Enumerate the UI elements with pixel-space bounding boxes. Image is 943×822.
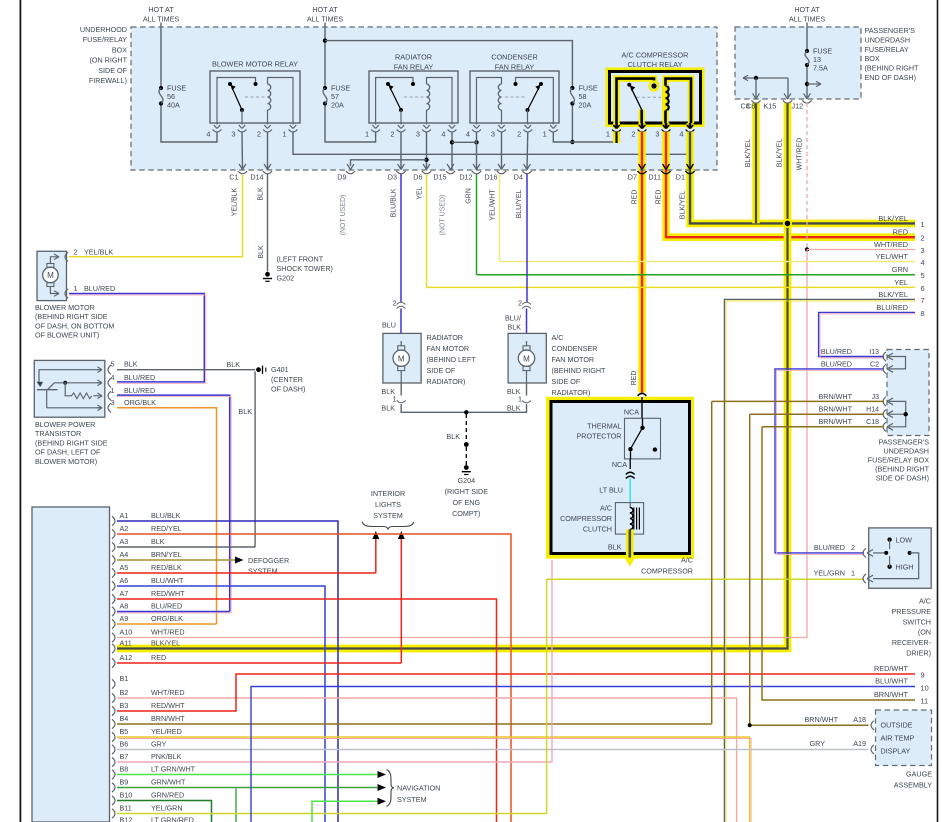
svg-text:1: 1 [74,284,78,293]
svg-text:BRN/WHT: BRN/WHT [818,392,852,401]
svg-text:BLK: BLK [608,543,622,552]
svg-text:ALL TIMES: ALL TIMES [307,15,344,24]
svg-text:GAUGE: GAUGE [906,770,932,779]
svg-text:DISPLAY: DISPLAY [881,747,911,756]
svg-text:BLU/: BLU/ [505,314,521,323]
svg-text:D9: D9 [337,173,346,182]
svg-text:RADIATOR: RADIATOR [395,53,432,62]
svg-text:RED: RED [151,653,166,662]
svg-text:BLK: BLK [226,360,240,369]
svg-text:BRN/WHT: BRN/WHT [818,417,852,426]
svg-text:2: 2 [517,130,521,139]
svg-text:J12: J12 [792,102,804,111]
svg-text:BLOWER MOTOR): BLOWER MOTOR) [35,457,97,466]
svg-text:C1: C1 [229,173,238,182]
svg-text:ALL TIMES: ALL TIMES [789,15,826,24]
svg-text:BLK: BLK [507,404,521,413]
svg-text:A9: A9 [120,614,129,623]
svg-text:1: 1 [921,220,925,229]
svg-text:BLK: BLK [258,187,265,201]
svg-text:C18: C18 [866,419,879,426]
svg-text:D4: D4 [514,173,523,182]
svg-text:LIGHTS: LIGHTS [375,500,401,509]
svg-text:SYSTEM: SYSTEM [397,795,427,804]
svg-text:HIGH: HIGH [896,563,914,572]
svg-text:UNDERHOOD: UNDERHOOD [80,25,127,34]
svg-text:5: 5 [111,360,115,369]
svg-text:LT GRN/RED: LT GRN/RED [151,816,194,822]
svg-text:YEL: YEL [417,186,424,199]
svg-text:SIDE OF: SIDE OF [552,377,581,386]
svg-text:RED: RED [656,190,663,205]
svg-text:CLUTCH RELAY: CLUTCH RELAY [627,60,682,69]
svg-text:4: 4 [679,130,683,139]
svg-text:BLK: BLK [507,323,521,332]
svg-text:RED: RED [893,228,908,237]
svg-text:BLU/RED: BLU/RED [84,284,115,293]
svg-text:G202: G202 [277,274,295,283]
svg-text:2: 2 [393,299,397,308]
svg-text:AIR TEMP: AIR TEMP [881,734,915,743]
svg-text:RED/BLK: RED/BLK [151,563,182,572]
svg-text:WHT/RED: WHT/RED [874,240,908,249]
svg-text:6: 6 [921,284,925,293]
svg-text:(ON: (ON [918,628,931,637]
svg-text:SHOCK TOWER): SHOCK TOWER) [277,264,333,273]
svg-text:RED/YEL: RED/YEL [151,524,182,533]
svg-text:RADIATOR): RADIATOR) [552,388,591,397]
svg-text:BLK/YEL: BLK/YEL [745,139,752,168]
svg-text:RED/WHT: RED/WHT [151,701,185,710]
svg-text:B12: B12 [120,816,133,822]
svg-text:D11: D11 [648,173,661,182]
svg-text:D1: D1 [676,173,685,182]
svg-text:BLU/WHT: BLU/WHT [875,677,908,686]
svg-text:RED: RED [631,371,638,386]
svg-text:NAVIGATION: NAVIGATION [397,784,440,793]
svg-text:CONDENSER: CONDENSER [491,53,538,62]
svg-text:ASSEMBLY: ASSEMBLY [894,781,932,790]
svg-text:BLU/BLK: BLU/BLK [151,511,181,520]
svg-text:B1: B1 [120,674,129,683]
svg-text:FAN RELAY: FAN RELAY [394,63,434,72]
svg-text:BLK: BLK [238,407,252,416]
svg-text:RED/WHT: RED/WHT [151,589,185,598]
svg-text:COMPT): COMPT) [452,509,480,518]
svg-text:1: 1 [282,130,286,139]
svg-text:GRN: GRN [466,188,473,204]
svg-text:5: 5 [921,271,925,280]
svg-text:SIDE OF: SIDE OF [98,66,127,75]
svg-text:INTERIOR: INTERIOR [371,489,405,498]
svg-text:A8: A8 [120,601,129,610]
svg-text:FAN RELAY: FAN RELAY [495,63,535,72]
svg-text:1: 1 [111,386,115,395]
svg-text:3: 3 [111,398,115,407]
svg-text:(CENTER: (CENTER [271,375,303,384]
svg-text:2: 2 [74,248,78,257]
svg-text:2: 2 [631,130,635,139]
svg-text:BLK: BLK [151,537,165,546]
svg-text:PASSENGER'S: PASSENGER'S [879,438,930,447]
svg-text:NCA: NCA [612,460,627,469]
svg-text:8: 8 [921,309,925,318]
svg-text:3: 3 [921,246,925,255]
svg-text:H14: H14 [866,407,879,414]
svg-text:A1: A1 [120,511,129,520]
svg-text:SIDE OF: SIDE OF [427,366,456,375]
svg-text:BRN/WHT: BRN/WHT [151,714,185,723]
svg-text:A3: A3 [120,537,129,546]
svg-text:(BEHIND RIGHT SIDE: (BEHIND RIGHT SIDE [35,312,108,321]
svg-text:UNDERDASH: UNDERDASH [865,35,911,44]
svg-text:(BEHIND LEFT: (BEHIND LEFT [427,355,477,364]
svg-text:BLOWER MOTOR RELAY: BLOWER MOTOR RELAY [212,60,298,69]
svg-text:COMPRESSOR: COMPRESSOR [560,514,612,523]
svg-text:2: 2 [390,130,394,139]
svg-text:WHT/RED: WHT/RED [797,138,804,171]
svg-text:GRY: GRY [151,739,167,748]
svg-text:PASSENGER'S: PASSENGER'S [865,26,916,35]
svg-text:B9: B9 [120,777,129,786]
svg-text:B2: B2 [120,688,129,697]
svg-text:A2: A2 [120,524,129,533]
svg-text:I13: I13 [869,349,879,356]
svg-text:1: 1 [606,130,610,139]
svg-text:1: 1 [851,569,855,578]
svg-text:GRN: GRN [892,265,908,274]
svg-text:GRN/WHT: GRN/WHT [151,777,186,786]
svg-text:1: 1 [543,130,547,139]
svg-text:SYSTEM: SYSTEM [248,567,278,576]
svg-text:RADIATOR): RADIATOR) [427,377,466,386]
svg-text:2: 2 [921,234,925,243]
svg-text:A5: A5 [120,563,129,572]
svg-text:A4: A4 [120,550,129,559]
svg-text:HOT AT: HOT AT [794,5,820,14]
svg-text:1: 1 [365,130,369,139]
svg-text:20A: 20A [331,101,344,110]
svg-text:(ON RIGHT: (ON RIGHT [89,56,127,65]
svg-text:9: 9 [921,671,925,680]
svg-text:OF BLOWER UNIT): OF BLOWER UNIT) [35,331,99,340]
svg-text:B11: B11 [120,803,132,812]
svg-text:1: 1 [393,395,397,404]
svg-text:BLK: BLK [258,245,265,259]
svg-text:D3: D3 [388,173,397,182]
svg-text:C8: C8 [741,102,750,111]
svg-text:7: 7 [921,296,925,305]
svg-text:(LEFT FRONT: (LEFT FRONT [277,255,324,264]
svg-text:4: 4 [921,258,925,267]
svg-text:BLK/YEL: BLK/YEL [878,214,908,223]
svg-text:END OF DASH): END OF DASH) [865,73,917,82]
svg-text:LT BLU: LT BLU [599,486,623,495]
svg-text:4: 4 [111,373,115,382]
svg-text:WHT/RED: WHT/RED [151,627,185,636]
svg-text:BLU/BLK: BLU/BLK [391,188,398,217]
svg-text:M: M [523,354,530,363]
svg-text:ORG/BLK: ORG/BLK [151,614,183,623]
svg-text:PNK/BLK: PNK/BLK [151,752,182,761]
svg-text:BLK/YEL: BLK/YEL [878,290,908,299]
svg-text:4: 4 [441,130,445,139]
svg-text:4: 4 [206,130,210,139]
svg-text:J3: J3 [872,394,880,401]
svg-text:CONDENSER: CONDENSER [552,344,598,353]
svg-text:PROTECTOR: PROTECTOR [577,432,622,441]
svg-text:A6: A6 [120,576,129,585]
svg-text:A/C: A/C [552,333,564,342]
svg-text:(NOT USED): (NOT USED) [340,195,347,236]
svg-text:(BEHIND RIGHT: (BEHIND RIGHT [865,64,920,73]
svg-text:GRY: GRY [810,739,826,748]
svg-text:20A: 20A [579,101,592,110]
svg-text:BRN/WHT: BRN/WHT [874,690,909,699]
svg-text:OF DASH): OF DASH) [271,384,305,393]
svg-text:SYSTEM: SYSTEM [373,511,403,520]
svg-text:BLK: BLK [381,404,395,413]
svg-text:YEL/GRN: YEL/GRN [151,803,183,812]
svg-text:B4: B4 [120,714,129,723]
svg-text:K15: K15 [764,102,777,111]
svg-text:D15: D15 [433,173,446,182]
svg-text:B5: B5 [120,727,129,736]
svg-text:FUSE/RELAY: FUSE/RELAY [865,45,909,54]
svg-text:2: 2 [518,299,522,308]
svg-text:OF DASH, LEFT OF: OF DASH, LEFT OF [35,448,101,457]
svg-text:A19: A19 [853,739,866,748]
svg-text:G204: G204 [458,476,476,485]
svg-text:40A: 40A [167,101,180,110]
svg-text:3: 3 [491,130,495,139]
svg-text:(NOT USED): (NOT USED) [440,195,447,236]
svg-text:11: 11 [921,697,929,706]
svg-text:BLU/RED: BLU/RED [876,303,908,312]
svg-text:FAN MOTOR: FAN MOTOR [552,355,595,364]
svg-text:4: 4 [466,130,470,139]
svg-text:(BEHIND RIGHT SIDE: (BEHIND RIGHT SIDE [35,438,108,447]
svg-text:BLU/WHT: BLU/WHT [151,576,184,585]
svg-text:BOX: BOX [865,54,880,63]
svg-text:FAN MOTOR: FAN MOTOR [427,344,470,353]
svg-text:2: 2 [851,543,855,552]
svg-text:D16: D16 [484,173,497,182]
svg-text:NCA: NCA [624,408,639,417]
svg-text:YEL/BLK: YEL/BLK [84,248,113,257]
svg-text:COMPRESSOR: COMPRESSOR [641,567,693,576]
svg-text:HOT AT: HOT AT [312,5,338,14]
svg-text:BRN/WHT: BRN/WHT [804,715,838,724]
svg-text:TRANSISTOR: TRANSISTOR [35,429,81,438]
svg-text:ALL TIMES: ALL TIMES [143,15,180,24]
svg-text:A7: A7 [120,589,129,598]
svg-text:BOX: BOX [112,45,127,54]
svg-text:BLU/RED: BLU/RED [124,373,155,382]
svg-text:FIREWALL): FIREWALL) [89,76,127,85]
svg-text:D12: D12 [459,173,472,182]
svg-text:G401: G401 [271,365,289,374]
svg-text:B6: B6 [120,739,129,748]
svg-text:HOT AT: HOT AT [148,5,174,14]
svg-text:A/C: A/C [919,597,931,606]
svg-text:B7: B7 [120,752,129,761]
svg-text:YEL/WHT: YEL/WHT [490,189,497,221]
svg-text:YEL/WHT: YEL/WHT [876,252,909,261]
svg-text:UNDERDASH: UNDERDASH [883,447,929,456]
svg-text:OF ENG: OF ENG [453,498,481,507]
svg-text:A/C: A/C [600,504,612,513]
svg-text:(BEHIND RIGHT: (BEHIND RIGHT [875,465,930,474]
svg-text:SIDE OF DASH): SIDE OF DASH) [876,474,929,483]
svg-text:BLU/RED: BLU/RED [821,359,852,368]
svg-text:THERMAL: THERMAL [587,422,621,431]
svg-text:RED: RED [632,190,639,205]
svg-text:M: M [47,271,54,280]
svg-text:WHT/RED: WHT/RED [151,688,185,697]
svg-text:A12: A12 [120,653,133,662]
svg-text:D7: D7 [628,173,637,182]
svg-text:(BEHIND RIGHT: (BEHIND RIGHT [552,366,607,375]
svg-text:A10: A10 [120,627,133,636]
svg-text:BLK/YEL: BLK/YEL [680,191,687,220]
svg-text:3: 3 [416,130,420,139]
svg-text:BLU/RED: BLU/RED [124,386,155,395]
svg-text:D14: D14 [250,173,263,182]
svg-text:BLU/RED: BLU/RED [814,543,845,552]
svg-text:BLOWER MOTOR: BLOWER MOTOR [35,303,95,312]
svg-text:RED/WHT: RED/WHT [874,664,909,673]
svg-text:BRN/WHT: BRN/WHT [818,405,852,414]
svg-text:LT GRN/WHT: LT GRN/WHT [151,764,196,773]
svg-text:7.5A: 7.5A [813,64,828,73]
svg-text:(RIGHT SIDE: (RIGHT SIDE [445,487,489,496]
svg-text:DRIER): DRIER) [906,649,931,658]
svg-text:A/C: A/C [681,556,693,565]
svg-text:RECEIVER-: RECEIVER- [892,638,932,647]
svg-text:B8: B8 [120,764,129,773]
svg-text:B3: B3 [120,701,129,710]
svg-text:YEL: YEL [894,278,908,287]
svg-text:BRN/YEL: BRN/YEL [151,550,182,559]
svg-text:RADIATOR: RADIATOR [427,333,463,342]
svg-text:BLK/YEL: BLK/YEL [777,139,784,168]
svg-text:3: 3 [655,130,659,139]
svg-text:1: 1 [518,395,522,404]
svg-text:A/C COMPRESSOR: A/C COMPRESSOR [622,51,689,60]
svg-text:FUSE/RELAY: FUSE/RELAY [83,35,127,44]
svg-text:OUTSIDE: OUTSIDE [881,721,913,730]
svg-text:2: 2 [257,130,261,139]
svg-text:BLU/YEL: BLU/YEL [516,189,523,218]
svg-text:YEL/BLK: YEL/BLK [232,187,239,216]
svg-text:D6: D6 [413,173,422,182]
svg-text:YEL/RED: YEL/RED [151,727,182,736]
svg-text:3: 3 [231,130,235,139]
svg-text:BLK: BLK [124,360,138,369]
svg-text:A11: A11 [120,638,132,647]
svg-text:10: 10 [921,684,929,693]
svg-text:YEL/GRN: YEL/GRN [813,569,845,578]
svg-text:B10: B10 [120,790,133,799]
svg-text:BLU: BLU [382,321,396,330]
svg-text:BLK: BLK [446,432,460,441]
svg-text:ORG/BLK: ORG/BLK [124,398,156,407]
svg-text:CLUTCH: CLUTCH [583,525,612,534]
svg-text:FUSE/RELAY BOX: FUSE/RELAY BOX [868,456,929,465]
svg-text:C2: C2 [870,361,879,368]
svg-text:OF DASH, ON BOTTOM: OF DASH, ON BOTTOM [35,321,114,330]
svg-text:BLU/RED: BLU/RED [151,601,182,610]
svg-text:SWITCH: SWITCH [903,617,931,626]
svg-text:LOW: LOW [896,536,913,545]
svg-text:GRN/RED: GRN/RED [151,790,184,799]
svg-text:A18: A18 [853,715,866,724]
svg-text:BLU/RED: BLU/RED [821,347,852,356]
svg-text:BLK/YEL: BLK/YEL [151,638,180,647]
svg-text:BLOWER POWER: BLOWER POWER [35,420,95,429]
svg-text:DEFOGGER: DEFOGGER [248,556,289,565]
svg-text:PRESSURE: PRESSURE [891,607,931,616]
svg-text:M: M [398,354,405,363]
